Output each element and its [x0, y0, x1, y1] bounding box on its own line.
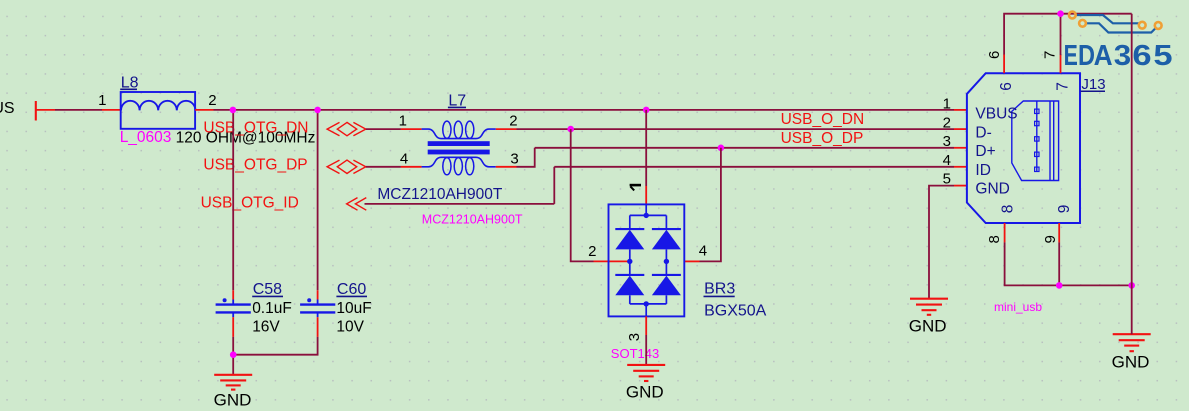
pin J13.4	[954, 166, 967, 168]
wire right vertical to GND	[1131, 14, 1133, 335]
wire DN junction down to BR3 pin2	[571, 129, 594, 261]
pin C58.1	[232, 290, 234, 299]
L7 top winding	[422, 129, 496, 139]
junction VBUS-C60	[314, 107, 321, 114]
node BR3 internal left	[627, 259, 632, 264]
svg-text:1: 1	[98, 92, 106, 109]
pin L7.1	[401, 128, 422, 130]
node BR3 internal right	[664, 259, 669, 264]
pin J13.5	[954, 185, 967, 187]
wire USB_O_DP rail to J13 pin3	[535, 147, 954, 149]
svg-text:GND: GND	[975, 181, 1009, 198]
svg-text:USB_O_DP: USB_O_DP	[781, 130, 864, 147]
svg-text:L_0603: L_0603	[120, 129, 172, 146]
svg-text:GND: GND	[626, 383, 664, 402]
svg-text:10V: 10V	[336, 319, 364, 336]
wire USB_OTG_DN to L7 pin1	[366, 128, 401, 130]
node BR3 internal top	[644, 213, 649, 218]
pin J13.7	[1060, 55, 1062, 73]
svg-text:7: 7	[1042, 51, 1059, 59]
svg-text:3: 3	[510, 151, 518, 168]
L7 core bars	[428, 141, 490, 146]
wire J13 pin8 drop	[1005, 242, 1132, 285]
junction bottom rail right vertical	[1128, 282, 1135, 289]
junction C58-C60 ground	[230, 351, 237, 358]
diode array BR3 body	[609, 204, 685, 316]
svg-text:8: 8	[999, 205, 1016, 214]
junction VBUS-C58	[230, 107, 237, 114]
node VBUS port pin end marker	[35, 101, 37, 121]
pin BR3.1	[645, 186, 647, 204]
connector J13 mini-USB cavity	[1012, 101, 1059, 181]
off-page connector USB_OTG_ID	[347, 198, 367, 211]
pin BR3.2	[594, 260, 630, 262]
svg-text:SOT143: SOT143	[611, 346, 659, 361]
junction pin9 bottom rail	[1056, 282, 1063, 289]
diode D3 bottom-left	[615, 274, 644, 276]
pin J13.8	[1004, 223, 1006, 242]
pin C60.1	[317, 290, 319, 299]
svg-text:MCZ1210AH900T: MCZ1210AH900T	[377, 186, 502, 203]
wire C60 bottom across to C58	[233, 337, 317, 355]
svg-text:3: 3	[626, 333, 643, 341]
EDA365 logo pads	[1069, 12, 1162, 29]
inductor L8 body	[121, 92, 196, 129]
pin C60.2	[317, 317, 319, 337]
wire BR3 pin3 to ground	[645, 335, 647, 365]
svg-text:1: 1	[943, 95, 951, 112]
svg-text:4: 4	[699, 243, 707, 260]
svg-text:5: 5	[943, 171, 951, 188]
svg-text:9: 9	[1056, 205, 1073, 214]
wire J13 pin5 GND drop	[929, 186, 954, 299]
svg-text:2: 2	[943, 115, 951, 132]
diode array BR3 designator	[704, 281, 736, 298]
pin J13.3	[954, 147, 967, 149]
svg-text:7: 7	[1054, 82, 1071, 91]
EDA365 logo text	[1064, 40, 1173, 72]
wire C60 riser from VBUS rail	[317, 110, 319, 290]
diode D2 top-right	[652, 228, 681, 230]
junction top rail pin7	[1057, 10, 1064, 17]
node BR3 internal bottom	[644, 301, 649, 306]
pin J13.9	[1058, 223, 1060, 242]
svg-text:VBUS: VBUS	[975, 106, 1017, 123]
svg-text:USB_OTG_DP: USB_OTG_DP	[203, 156, 307, 173]
wire USB_OTG_ID horizontal under MCZ label	[365, 203, 555, 205]
svg-text:ID: ID	[975, 162, 991, 179]
off-page connector USB_OTG_DN	[327, 122, 366, 135]
svg-text:USB_O_DN: USB_O_DN	[781, 111, 865, 128]
svg-text:BGX50A: BGX50A	[704, 303, 767, 320]
svg-text:GND: GND	[1112, 352, 1150, 371]
pin J13.1	[954, 109, 967, 111]
svg-text:6: 6	[986, 51, 1003, 59]
svg-text:E: E	[1064, 40, 1078, 72]
wire J13 pin9 drop	[1058, 242, 1060, 285]
L7 bottom winding	[422, 157, 496, 167]
pin L8.2	[195, 109, 213, 111]
capacitor C60 designator	[336, 281, 367, 298]
pin BR3.3	[645, 316, 647, 335]
junction VBUS-BR3	[643, 107, 650, 114]
svg-text:3: 3	[1114, 40, 1131, 72]
svg-text:2: 2	[208, 92, 216, 109]
svg-text:MCZ1210AH900T: MCZ1210AH900T	[422, 212, 523, 226]
wire VBUS port red stub	[36, 109, 55, 111]
off-page connector USB_OTG_DP	[327, 160, 366, 173]
svg-text:4: 4	[400, 151, 408, 168]
connector J13 outline	[967, 73, 1080, 223]
svg-text:VBUS: VBUS	[0, 100, 15, 117]
svg-text:GND: GND	[909, 317, 947, 336]
svg-text:4: 4	[943, 152, 951, 169]
inductor L8 designator	[120, 74, 138, 91]
ground symbol below BR3	[626, 365, 665, 402]
capacitor C60	[300, 298, 335, 317]
svg-text:1: 1	[399, 113, 407, 130]
ground symbol below J13 pin5	[909, 299, 948, 336]
pin J13.2	[954, 128, 967, 130]
wire top rail to right vertical	[1061, 13, 1132, 15]
ground symbol below C58	[214, 375, 253, 410]
pin BR3.1 number 1 rotated	[630, 185, 641, 190]
svg-text:8: 8	[986, 235, 1003, 243]
connector J13 designator	[1081, 76, 1106, 93]
pin L7.2	[496, 128, 517, 130]
svg-text:2: 2	[509, 113, 517, 130]
wire VBUS rail L8 to J13	[214, 109, 955, 111]
pin L7.4	[401, 166, 422, 168]
wire J13 pin7 riser	[1060, 14, 1062, 55]
wire C58 riser from VBUS rail	[232, 110, 234, 290]
wire DP junction down to BR3 pin4	[700, 148, 721, 262]
svg-text:USB_OTG_ID: USB_OTG_ID	[201, 195, 299, 212]
diode D1 top-left	[615, 228, 644, 230]
svg-text:BR3: BR3	[704, 281, 735, 298]
pin L8.1	[102, 109, 121, 111]
transformer L7 common mode choke	[422, 121, 496, 175]
pin J13.6	[1003, 55, 1005, 74]
pin BR3.4	[684, 260, 699, 262]
pin L7.3	[496, 166, 517, 168]
svg-text:D-: D-	[975, 125, 991, 142]
svg-text:10uF: 10uF	[336, 300, 371, 317]
capacitor C58	[216, 298, 251, 317]
svg-text:6: 6	[998, 82, 1015, 91]
capacitor C58 designator	[252, 281, 283, 298]
svg-text:USB_OTG_DN: USB_OTG_DN	[203, 120, 308, 137]
wire USB_OTG_DP to L7 pin4	[366, 166, 401, 168]
svg-text:0.1uF: 0.1uF	[252, 300, 292, 317]
junction DN-BR3	[567, 126, 574, 133]
wire VBUS to L8 pin1	[55, 109, 102, 111]
diode D4 bottom-right	[652, 274, 681, 276]
svg-text:A: A	[1094, 40, 1113, 72]
wire L7 pin2 to J13 pin2 USB_O_DN	[517, 128, 955, 130]
wire L7 pin3 jog up to USB_O_DP rail	[517, 148, 535, 167]
svg-text:6: 6	[1132, 40, 1151, 72]
wire USB_OTG_ID jog up	[553, 167, 555, 204]
svg-text:16V: 16V	[252, 319, 280, 336]
svg-text:2: 2	[588, 243, 596, 260]
svg-text:5: 5	[1153, 40, 1172, 72]
pin C58.2	[232, 317, 234, 337]
wire BR3 pin1 riser	[645, 110, 647, 186]
wire ID rail to J13 pin4	[554, 166, 954, 168]
svg-text:9: 9	[1042, 235, 1059, 243]
wire C58 bottom to GND junction	[232, 337, 234, 375]
svg-text:D: D	[1078, 40, 1095, 72]
svg-text:mini_usb: mini_usb	[994, 300, 1042, 314]
transformer L7 designator	[448, 93, 466, 110]
svg-text:3: 3	[943, 133, 951, 150]
ground symbol right of J13	[1112, 334, 1151, 371]
svg-text:GND: GND	[214, 390, 252, 409]
junction DP-BR3	[718, 145, 725, 152]
wire J13 pin6 riser	[1004, 14, 1060, 55]
EDA365 logo traces	[1076, 15, 1156, 33]
svg-text:D+: D+	[975, 143, 995, 160]
